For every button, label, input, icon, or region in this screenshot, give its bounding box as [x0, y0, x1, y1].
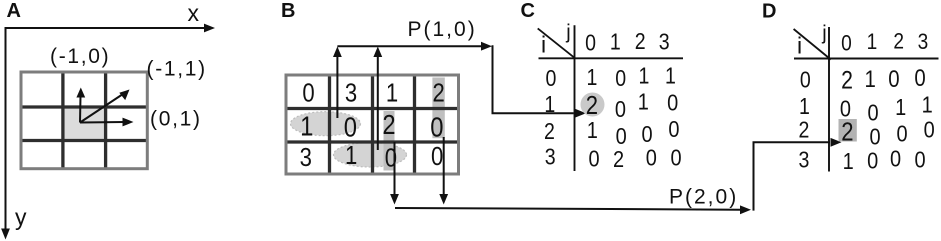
svg-text:0: 0 [867, 147, 878, 174]
table C data row 1 [586, 88, 678, 123]
svg-text:0: 0 [867, 99, 878, 126]
grid B numbers row 1 [302, 79, 444, 108]
svg-text:0: 0 [646, 144, 657, 171]
svg-text:2: 2 [635, 29, 646, 55]
svg-text:0: 0 [668, 116, 679, 143]
highlight ellipse pair row2 cols1-2 [291, 112, 361, 136]
grid B numbers row 2 [300, 108, 443, 143]
table C vertical rule [574, 25, 576, 171]
svg-text:1: 1 [638, 88, 649, 115]
table C highlight blob on entry (1,0) [581, 93, 605, 117]
svg-text:0: 0 [546, 65, 557, 91]
svg-text:0: 0 [344, 111, 357, 143]
svg-text:3: 3 [300, 143, 312, 172]
svg-text:y: y [15, 204, 27, 230]
svg-text:0: 0 [896, 120, 907, 147]
svg-text:3: 3 [659, 29, 670, 55]
svg-text:1: 1 [799, 94, 810, 120]
displacement arrow (0,1) [80, 118, 134, 127]
svg-text:0: 0 [924, 116, 935, 143]
grid A outer border [21, 72, 147, 169]
grid B outer border [286, 75, 459, 174]
svg-text:C: C [521, 0, 535, 22]
svg-text:A: A [7, 0, 21, 22]
grid A shaded center cell [63, 107, 106, 141]
P(2,0) elbow into table D [754, 138, 842, 211]
svg-text:2: 2 [432, 79, 444, 108]
table C horizontal rule [539, 57, 684, 59]
svg-text:x: x [188, 0, 200, 26]
svg-text:(0,1): (0,1) [150, 108, 202, 131]
svg-text:1: 1 [922, 91, 933, 118]
grid B inner lines [286, 75, 459, 174]
svg-text:1: 1 [345, 141, 357, 170]
highlight bar col3 rows2-3 [384, 111, 395, 171]
svg-text:0: 0 [914, 65, 925, 92]
svg-text:0: 0 [890, 145, 901, 172]
table D data row 2 [841, 116, 934, 150]
svg-text:1: 1 [300, 110, 313, 142]
highlight ellipse pair row3 cols2-3 [334, 143, 407, 167]
svg-text:3: 3 [918, 30, 929, 55]
svg-text:0: 0 [914, 146, 925, 173]
svg-text:1: 1 [610, 29, 621, 55]
table D data row 1 [840, 91, 933, 126]
P(1,0) top connector line [337, 42, 492, 51]
svg-text:D: D [762, 0, 776, 22]
table C data row 0 [587, 63, 676, 91]
table D data row 0 [841, 65, 926, 94]
svg-text:1: 1 [544, 92, 555, 118]
svg-text:i: i [797, 33, 802, 59]
svg-text:j: j [821, 22, 826, 44]
svg-text:P(2,0): P(2,0) [669, 186, 738, 209]
svg-text:2: 2 [613, 145, 624, 172]
svg-text:1: 1 [865, 65, 876, 92]
svg-text:0: 0 [615, 65, 626, 91]
svg-text:0: 0 [800, 67, 811, 93]
table C row labels [544, 65, 557, 170]
table D highlight square on entry (2,0) [839, 119, 857, 142]
svg-text:2: 2 [841, 66, 853, 94]
svg-text:1: 1 [867, 30, 878, 55]
table C data row 2 [587, 116, 680, 150]
svg-text:0: 0 [888, 65, 899, 92]
svg-text:1: 1 [665, 63, 676, 89]
table D vertical rule [828, 27, 830, 172]
svg-text:1: 1 [587, 116, 598, 143]
svg-text:0: 0 [588, 145, 599, 172]
grid B numbers row 3 [300, 141, 444, 173]
y axis [1, 27, 10, 240]
x axis [6, 24, 216, 33]
svg-text:2: 2 [841, 118, 853, 147]
svg-text:1: 1 [895, 93, 906, 120]
displacement arrow (-1,1) [80, 90, 130, 123]
svg-text:2: 2 [799, 117, 810, 143]
svg-text:i: i [541, 32, 546, 58]
svg-text:2: 2 [382, 108, 395, 140]
svg-text:(-1,0): (-1,0) [50, 45, 110, 68]
table D horizontal rule [794, 58, 939, 60]
table C header diagonal [538, 28, 576, 58]
table D row labels [799, 67, 811, 173]
svg-text:2: 2 [544, 118, 555, 144]
down arrow from pair (2,0) col4 [439, 137, 448, 205]
table D header diagonal [794, 29, 831, 60]
svg-text:2: 2 [893, 29, 904, 54]
svg-text:0: 0 [667, 89, 678, 116]
up arrow from pair (1,0) right [373, 47, 382, 151]
table D data row 3 [843, 145, 926, 174]
svg-text:0: 0 [430, 111, 443, 143]
svg-text:1: 1 [386, 79, 398, 108]
P(1,0) elbow into table C [493, 45, 587, 117]
svg-text:B: B [281, 0, 295, 22]
svg-text:1: 1 [639, 63, 650, 89]
P(2,0) bottom connector line [395, 205, 751, 214]
svg-text:P(1,0): P(1,0) [408, 18, 477, 41]
table C column headers [585, 29, 669, 56]
svg-text:1: 1 [843, 148, 854, 175]
svg-text:0: 0 [585, 30, 596, 56]
highlight bar col4 rows1-2 [432, 78, 444, 139]
grid A inner lines [21, 72, 147, 169]
svg-text:3: 3 [545, 144, 556, 170]
down arrow from pair (2,0) col3 [390, 142, 399, 205]
svg-text:0: 0 [670, 144, 681, 171]
svg-text:(-1,1): (-1,1) [147, 58, 207, 81]
displacement arrow (-1,0) [76, 88, 85, 123]
svg-text:0: 0 [431, 142, 443, 171]
svg-text:1: 1 [587, 65, 598, 91]
svg-text:3: 3 [799, 147, 810, 173]
svg-text:3: 3 [345, 79, 357, 108]
table D column headers [841, 29, 928, 56]
up arrow from pair (1,0) left [333, 47, 342, 119]
svg-text:0: 0 [841, 31, 852, 56]
svg-text:j: j [565, 22, 570, 44]
svg-text:0: 0 [302, 79, 314, 108]
table C data row 3 [588, 144, 681, 172]
svg-text:0: 0 [615, 96, 626, 123]
